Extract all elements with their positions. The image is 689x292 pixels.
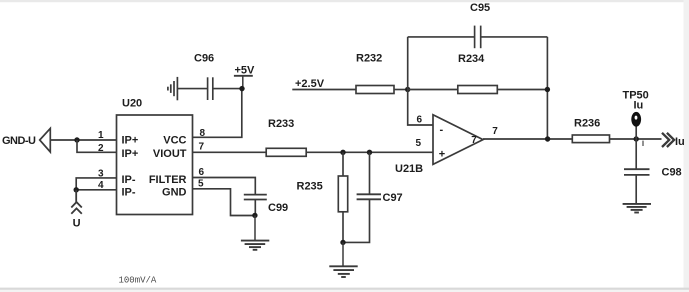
svg-text:-: - — [440, 124, 444, 136]
svg-text:+: + — [439, 149, 445, 161]
svg-text:VIOUT: VIOUT — [153, 148, 187, 160]
wire R236 to Iu port — [610, 138, 662, 140]
wire feedback right vertical — [546, 37, 548, 139]
node TP50 junction — [634, 136, 639, 141]
svg-text:C95: C95 — [470, 2, 490, 14]
svg-text:7: 7 — [492, 126, 498, 137]
ground (rotated, at C96 left) — [168, 77, 178, 100]
wire pin7 VIOUT to opamp — [193, 151, 434, 153]
wire pin5 GND — [193, 189, 255, 216]
svg-text:GND-U: GND-U — [2, 135, 36, 147]
svg-text:5: 5 — [198, 179, 204, 190]
svg-text:GND: GND — [162, 186, 187, 198]
svg-text:6: 6 — [417, 115, 423, 126]
resistor R234 — [408, 86, 548, 94]
ground (below C99) — [241, 215, 269, 249]
svg-text:VCC: VCC — [163, 135, 186, 147]
IC U20 body — [117, 115, 193, 215]
svg-text:1: 1 — [98, 130, 104, 141]
svg-text:Iu: Iu — [675, 136, 685, 148]
svg-text:IP-: IP- — [122, 186, 136, 198]
wire pin3 — [76, 178, 116, 190]
svg-text:5: 5 — [416, 138, 422, 149]
testpoint pin tick — [642, 141, 644, 146]
node R235 top junction — [340, 150, 345, 155]
svg-text:R236: R236 — [574, 118, 600, 130]
svg-text:8: 8 — [200, 128, 206, 139]
svg-text:C99: C99 — [268, 202, 288, 214]
wire pin4 — [76, 189, 116, 191]
node R232/R234 junction — [405, 87, 410, 92]
connector GND-U (left input port triangle) — [40, 128, 51, 152]
svg-text:IP+: IP+ — [122, 135, 139, 147]
svg-text:R233: R233 — [268, 118, 294, 130]
op-amp U21B — [433, 115, 483, 165]
capacitor C95 — [408, 26, 548, 49]
node pin3/4 junction — [74, 187, 79, 192]
off-page connector Iu (right chevrons) — [662, 133, 674, 147]
node output junction — [545, 136, 550, 141]
svg-text:FILTER: FILTER — [149, 174, 187, 186]
svg-text:3: 3 — [98, 168, 104, 179]
node left junction — [74, 137, 79, 142]
node R234 right junction — [545, 87, 550, 92]
resistor R233 — [266, 148, 306, 156]
wire GND-U to pin1 — [50, 139, 116, 141]
svg-text:U21B: U21B — [395, 163, 423, 175]
wire pin6 FILTER — [193, 178, 256, 195]
svg-text:4: 4 — [98, 180, 104, 191]
ground (below R235) — [329, 242, 357, 277]
svg-text:2: 2 — [98, 143, 104, 154]
svg-text:C96: C96 — [194, 52, 214, 64]
capacitor C99 — [244, 195, 267, 216]
wire opamp output — [483, 138, 572, 140]
ground (below C98) — [623, 204, 651, 213]
off-page connector U (up chevrons) — [71, 190, 82, 214]
wire branch to pin2 — [77, 140, 117, 152]
capacitor C97 — [343, 152, 381, 242]
svg-text:R235: R235 — [297, 181, 323, 193]
svg-text:C97: C97 — [383, 192, 403, 204]
node R235 bottom junction — [340, 240, 345, 245]
svg-text:6: 6 — [199, 167, 205, 178]
svg-text:R232: R232 — [356, 52, 382, 64]
svg-text:U20: U20 — [122, 98, 142, 110]
svg-text:IP+: IP+ — [122, 148, 139, 160]
svg-text:U: U — [73, 218, 81, 230]
power +5V — [234, 76, 253, 89]
wire R232 to junction — [394, 89, 408, 91]
resistor R236 — [572, 135, 609, 143]
wire +2.5V to R232 — [292, 89, 356, 91]
svg-text:C98: C98 — [662, 167, 682, 179]
svg-text:7: 7 — [199, 142, 205, 153]
node +5V junction — [239, 86, 244, 91]
capacitor C96 — [178, 77, 243, 100]
resistor R232 — [356, 86, 394, 94]
resistor R235 (vertical) — [338, 152, 347, 242]
svg-text:Iu: Iu — [634, 100, 644, 112]
svg-text:100mV/A: 100mV/A — [119, 276, 157, 286]
svg-text:+5V: +5V — [235, 65, 256, 77]
test point TP50 — [631, 112, 641, 139]
svg-text:7: 7 — [471, 135, 477, 146]
svg-text:R234: R234 — [458, 53, 485, 65]
node C99 bottom junction — [252, 213, 257, 218]
capacitor C98 — [624, 139, 650, 203]
svg-text:IP-: IP- — [122, 174, 136, 186]
node C97 top junction — [367, 150, 372, 155]
svg-text:+2.5V: +2.5V — [295, 78, 325, 90]
wire junction to opamp pin6 — [408, 37, 433, 125]
wire pin8 VCC — [193, 89, 242, 138]
